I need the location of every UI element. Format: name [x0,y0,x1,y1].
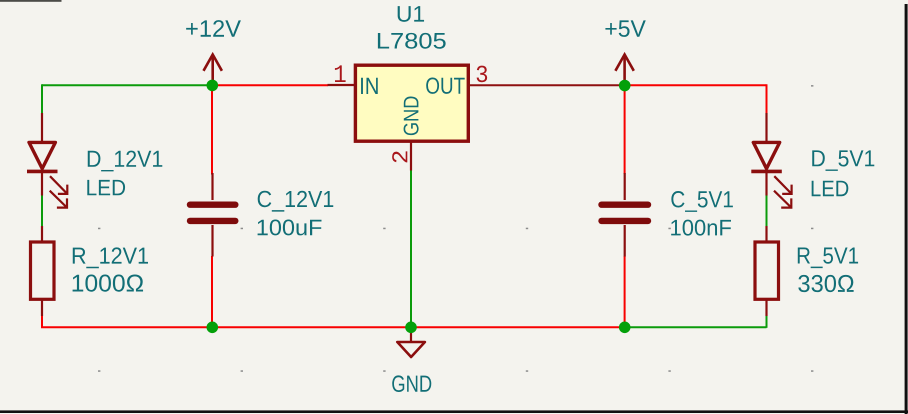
label R_5V1 [798,248,858,269]
label 1000 ohm [73,275,143,292]
wire: green between LED and R_12V1 [41,195,43,226]
wire: red vertical down to D_5V1 [766,84,768,113]
label 100nF [671,220,731,236]
label U1 [398,6,424,22]
pin number 3 [477,66,488,83]
pin number 2 [392,151,407,162]
junction node bottom right [619,322,631,334]
label +5V [605,20,645,37]
wire: green GND stem from regulator pin2 to bottom rail [410,170,412,327]
wire: green below R_5V1 to bottom rail [766,315,768,328]
resistor R_5V1 [755,242,779,299]
junction node bottom gnd [405,322,417,334]
pin 1 IN stub [328,84,355,86]
junction node bottom left [207,322,219,334]
label L7805 [378,33,446,49]
power symbol +12V [204,55,222,84]
wire: red top from +12V node to IN pin [212,84,328,86]
wire: bottom green rail right [624,326,767,328]
wire: red vertical C_5V1 bottom [624,256,626,328]
wire: dark red from OUT pin to +5V node [470,84,624,86]
ground symbol GND [410,327,412,341]
capacitor C_5V1 [624,173,626,200]
window frame edges [0,0,62,2]
voltage regulator U1 L7805 body [355,65,468,141]
pin name OUT [426,77,465,93]
wire: red top right from +5V node to right column [624,84,767,86]
LED D_5V1 [751,113,791,208]
junction node +5V [619,80,631,92]
wire: left column green vertical down to LED [41,84,43,113]
capacitor C_12V1 [211,173,213,200]
label +12V [186,20,241,37]
label D_5V1 [812,150,874,171]
wire: red vertical C_12V1 top [211,85,213,175]
label D_12V1 [88,151,163,172]
pin 2 GND stub [410,142,412,171]
wire: red vertical C_5V1 top [624,85,626,174]
wire: red vertical C_12V1 bottom [211,256,213,328]
label LED (D_5V1 value) [812,181,849,196]
wire: bottom red rail [41,326,624,328]
pin number 1 [335,65,346,82]
junction node +12V [207,80,219,92]
label LED (D_12V1 value) [87,180,125,195]
resistor R_12V1 [31,242,55,299]
label 330 ohm [798,275,853,292]
label GND [392,375,431,392]
label R_12V1 [73,247,148,268]
wire: green between D_5V1 and R_5V1 [766,195,768,226]
wire: red below R_12V1 to bottom rail [41,315,43,328]
label C_5V1 [671,191,733,212]
power symbol +5V [615,55,633,84]
pin name IN [361,78,378,94]
label C_12V1 [258,191,334,212]
LED D_12V1 [27,113,67,208]
pin name GND [404,97,419,136]
grid dots [98,85,813,372]
wire: top-left green horizontal (+12V node to left column) [42,84,212,86]
label 100uF [258,219,322,235]
